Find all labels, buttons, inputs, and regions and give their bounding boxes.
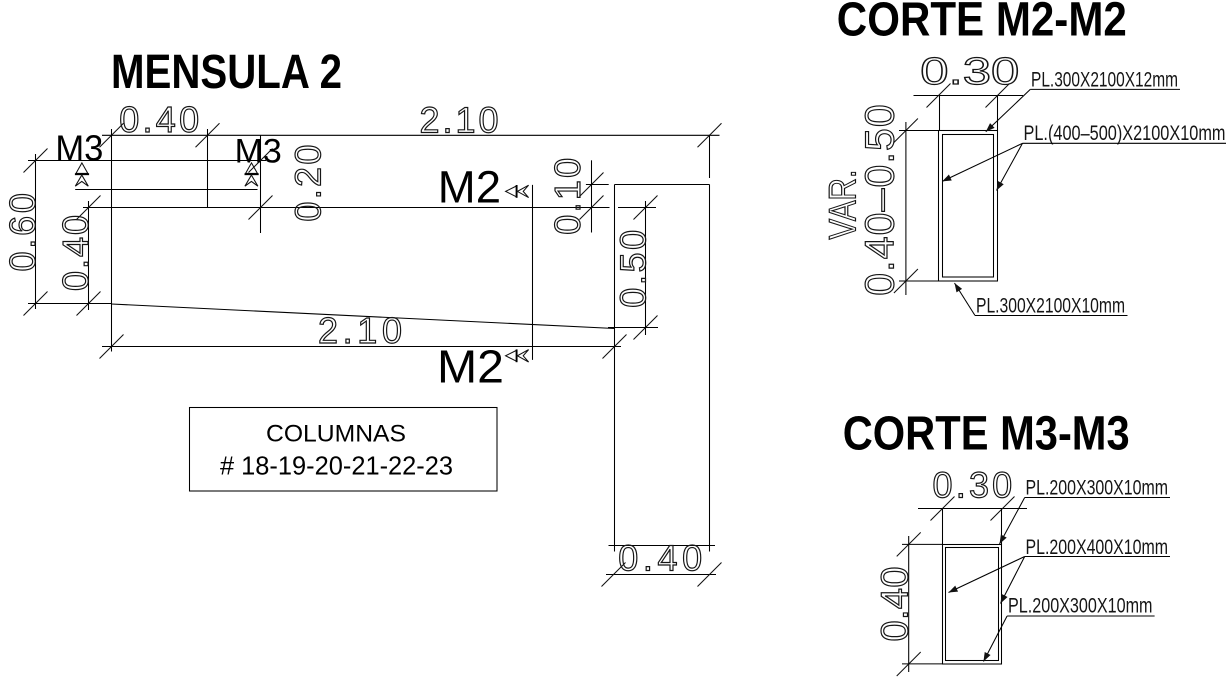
extension M2 sec left top [899, 130, 939, 132]
extension 0.50 top [618, 207, 656, 209]
svg-text:MENSULA 2: MENSULA 2 [111, 46, 342, 99]
tick top dim at x=710 [698, 123, 722, 147]
leader arrow PL.200X300X10mm bottom [984, 616, 1008, 662]
corbel top edge with 0.40 extension [83, 207, 610, 209]
extension M3 sec left top [902, 543, 943, 545]
extension M3 sec top right [1001, 509, 1003, 545]
extension M3 sec left bottom [902, 663, 943, 665]
M2 bottom arrow base bar [516, 349, 518, 362]
leader underline PL.(400-500)X2100X10mm [1023, 142, 1227, 144]
svg-text:0.30: 0.30 [933, 464, 1013, 505]
svg-text:0.40–0.50: 0.40–0.50 [857, 104, 903, 296]
tick bottom dim left [100, 335, 124, 359]
svg-text:0.30: 0.30 [920, 51, 1019, 93]
leader arrow PL.300X2100X12mm [986, 89, 1031, 131]
section cut connector line M3-M3 [75, 189, 257, 191]
svg-text:PL.200X400X10mm: PL.200X400X10mm [1026, 535, 1169, 559]
svg-text:CORTE M2-M2: CORTE M2-M2 [837, 0, 1127, 47]
section cut line M2-M2 [532, 185, 534, 360]
tick column dim left [602, 563, 626, 587]
svg-text:0.40: 0.40 [875, 567, 917, 642]
tick column dim right [698, 563, 722, 587]
svg-text:M2: M2 [438, 161, 501, 212]
extension M2 sec left bottom [899, 280, 939, 282]
svg-text:PL.200X300X10mm: PL.200X300X10mm [1026, 476, 1169, 500]
M3 right arrow dart [245, 175, 258, 186]
tick 0.10 bottom [580, 196, 604, 220]
corbel tab right edge [207, 129, 209, 208]
dim line 0.30 M3 section [918, 508, 1027, 510]
leader arrow PL.300X2100X10mm [955, 283, 976, 316]
tick M2 sec top right [986, 84, 1010, 108]
svg-text:0.20: 0.20 [287, 145, 328, 222]
M2 section outer plate rect [939, 131, 998, 282]
corbel tab top edge with 0.60/0.20 extensions [28, 160, 266, 162]
tick top dim at x=112 [100, 123, 124, 147]
tick M3 sec top right [991, 497, 1015, 521]
svg-text:2.10: 2.10 [420, 99, 499, 140]
dim line 0.40 column bottom [606, 574, 716, 576]
extension M3 sec top left [942, 509, 944, 545]
tick M2 sec left bottom [894, 269, 918, 293]
tick 0.60 bottom [24, 292, 48, 316]
tick 0.20 bottom [249, 196, 273, 220]
tick bottom dim right [603, 335, 627, 359]
leader underline PL.300X2100X10mm [975, 315, 1128, 317]
M3 right arrow triangle [246, 163, 258, 174]
tick M3 sec left bottom [897, 652, 921, 676]
M2 section inner plate rect [943, 135, 994, 278]
leader arrow PL.(400-500) to right wall [997, 143, 1023, 190]
svg-text:# 18-19-20-21-22-23: # 18-19-20-21-22-23 [220, 451, 453, 481]
extension 0.10 [586, 184, 609, 186]
M2 top arrow dart [517, 185, 528, 197]
dim line 0.40 M3 left [908, 536, 910, 672]
svg-text:0.10: 0.10 [547, 158, 588, 235]
column right edge upper extension [709, 135, 711, 178]
leader underline PL.300X2100X12mm [1030, 88, 1180, 90]
dim line 0.30 M2 section [914, 95, 1024, 97]
svg-text:M3: M3 [235, 132, 282, 170]
svg-text:PL.(400–500)X2100X10mm: PL.(400–500)X2100X10mm [1024, 121, 1226, 145]
svg-text:M2: M2 [437, 341, 504, 393]
leader underline PL.200X400X10mm [1025, 556, 1170, 558]
leader arrow PL.200X400X10mm to right wall [1001, 557, 1025, 604]
extension M2 sec top right [997, 96, 999, 131]
svg-text:2.10: 2.10 [318, 310, 402, 351]
tick 0.50 bottom [634, 316, 658, 340]
corbel taper bottom edge [112, 304, 615, 329]
dimension line top 0.40 / 2.10 [102, 134, 720, 136]
leader underline PL.200X300X10mm top [1025, 497, 1170, 499]
M3 left arrow base bar [75, 173, 89, 175]
svg-text:0.50: 0.50 [612, 230, 653, 308]
COLUMNAS note box [190, 408, 498, 492]
M2 top arrow triangle [506, 186, 517, 197]
M3 section inner plate rect [946, 548, 999, 661]
M2 top arrow base bar [516, 185, 518, 198]
tick 0.60 top [24, 149, 48, 173]
svg-text:0.40: 0.40 [55, 215, 96, 291]
svg-text:COLUMNAS: COLUMNAS [266, 420, 406, 447]
svg-text:PL.200X300X10mm: PL.200X300X10mm [1008, 594, 1153, 618]
leader arrow PL.200X400X10mm to left wall [949, 557, 1025, 593]
svg-text:CORTE M3-M3: CORTE M3-M3 [843, 408, 1130, 461]
extension M2 sec top left [939, 96, 941, 131]
svg-text:0.40: 0.40 [119, 99, 199, 140]
tick 0.20 top [249, 149, 273, 173]
dim line 0.20 [260, 135, 262, 233]
leader arrow PL.200X300X10mm top [1000, 498, 1025, 545]
svg-text:0.60: 0.60 [2, 193, 43, 271]
svg-text:M3: M3 [55, 127, 103, 168]
M3 right arrow base bar [245, 173, 259, 175]
M2 bottom arrow dart [517, 350, 528, 362]
corbel left edge [111, 129, 113, 352]
svg-text:PL.300X2100X10mm: PL.300X2100X10mm [976, 293, 1125, 317]
tick 0.40L top [77, 196, 101, 220]
dim line 0.60 left [35, 154, 37, 309]
M3 section outer plate rect [943, 545, 1002, 665]
extension line bottom-left corner [28, 303, 112, 305]
svg-text:0.40: 0.40 [618, 538, 702, 579]
tick top dim at x=207 [196, 123, 220, 147]
dim line 0.40 left [88, 201, 90, 310]
dim line 0.50 [645, 201, 647, 335]
M3 left arrow triangle [76, 163, 88, 174]
tick M3 sec left top [897, 532, 921, 556]
tick M3 sec top left [931, 497, 955, 521]
column right edge [709, 185, 711, 552]
column top edge [615, 184, 710, 186]
extension 0.50 bottom [608, 327, 658, 329]
leader underline PL.200X300X10mm bottom [1007, 615, 1155, 617]
svg-text:PL.300X2100X12mm: PL.300X2100X12mm [1031, 68, 1178, 92]
dim line VAR 0.40-0.50 [905, 122, 907, 295]
tick M2 sec top left [927, 84, 951, 108]
column bottom edge [609, 545, 716, 547]
dim line 0.10 [591, 160, 593, 232]
tick M2 sec left top [894, 119, 918, 143]
column left edge [614, 185, 616, 552]
M3 left arrow dart [75, 175, 88, 186]
tick 0.10 top [580, 173, 604, 197]
dimension line bottom 2.10 [102, 346, 621, 348]
tick 0.40L bottom [77, 292, 101, 316]
leader arrow PL.(400-500) to left wall [942, 143, 1022, 181]
tick 0.50 top [634, 196, 658, 220]
M2 bottom arrow triangle [506, 350, 517, 361]
